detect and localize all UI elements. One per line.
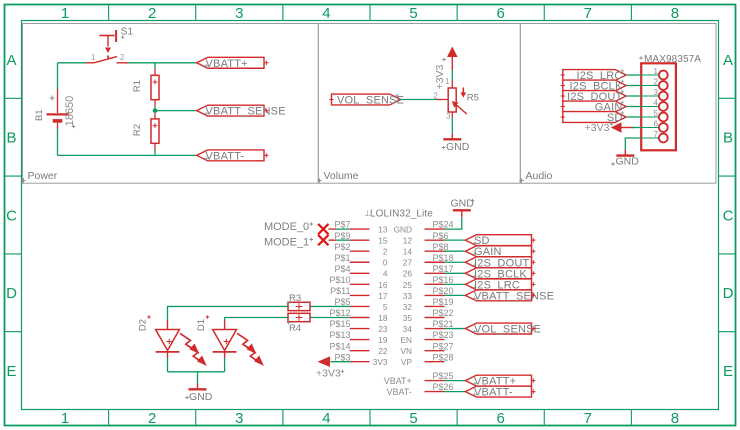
connector U2 pad circle pin 1 [659, 71, 668, 80]
module U1 right pin P$8 [425, 250, 445, 252]
section box Audio [520, 24, 716, 184]
svg-text:E: E [723, 363, 733, 380]
module U1 right pin P$17 [425, 272, 445, 274]
svg-text:D: D [723, 285, 734, 302]
wire GAIN to U2 pin 4 [626, 106, 641, 108]
svg-text:R1: R1 [132, 80, 143, 92]
svg-text:4: 4 [322, 410, 330, 427]
global label I2S_DOUT [563, 91, 626, 102]
global label I2S_BCLK [563, 80, 626, 91]
module U1 right pin P$21 [425, 328, 445, 330]
svg-text:1: 1 [61, 5, 69, 22]
section title Power [21, 178, 25, 182]
svg-text:B: B [6, 130, 16, 147]
svg-text:GND: GND [446, 141, 470, 153]
svg-text:17: 17 [378, 291, 388, 301]
module U1 left pin P$9 [350, 239, 370, 241]
ground GND module [453, 210, 471, 217]
wire U1 P$24 to GND [445, 217, 462, 229]
module U1 right pin P$27 [425, 350, 445, 352]
switch S1 [86, 30, 129, 63]
module U1 left pin P$14 [350, 350, 370, 352]
module U1 right pin P$20 [425, 294, 445, 296]
svg-text:34: 34 [403, 324, 413, 334]
wire U1 P$26 to VBATT- [445, 391, 466, 393]
module U1 right pin P$16 [425, 283, 445, 285]
svg-text:GND: GND [616, 156, 640, 168]
wire SD to U2 pin 5 [626, 116, 641, 118]
frame row ticks [5, 98, 736, 331]
module U1 left pin P$15 [350, 328, 370, 330]
module U1 left pin P$11 [350, 294, 370, 296]
module U1 left pin P$5 [350, 305, 370, 307]
global label I2S_LRC [563, 70, 626, 81]
connector U2 pin line 4 [641, 106, 659, 108]
svg-text:6: 6 [497, 5, 505, 22]
wire R5 pin3 to GND [451, 118, 453, 135]
svg-text:MODE_1: MODE_1 [264, 236, 309, 248]
svg-text:D: D [6, 285, 17, 302]
ground GND audio [616, 150, 634, 156]
wire U1 P$3 to +3V3 [331, 361, 350, 363]
svg-text:GND: GND [189, 391, 213, 403]
svg-text:VN: VN [400, 346, 412, 356]
connector U2 pad circle pin 2 [659, 81, 668, 90]
svg-text:P$12: P$12 [329, 308, 350, 318]
svg-text:GND: GND [394, 225, 412, 235]
svg-text:33: 33 [403, 291, 413, 301]
module U1 right pin P$28 [425, 361, 445, 363]
module U1 right pin P$18 [425, 261, 445, 263]
svg-text:R5: R5 [467, 92, 479, 103]
global label GAIN [465, 246, 531, 257]
svg-text:P$17: P$17 [433, 264, 454, 274]
wire U2 pin7 to GND audio [625, 138, 641, 150]
module U1 left pin P$10 [350, 283, 370, 285]
ground GND leds text [185, 396, 189, 400]
svg-text:P$1: P$1 [334, 253, 350, 263]
svg-text:1: 1 [445, 77, 450, 86]
svg-text:2: 2 [383, 247, 388, 257]
resistor R1 [151, 69, 159, 106]
global label VBATT- [197, 150, 264, 161]
ground GND audio text [611, 162, 615, 166]
svg-text:D1: D1 [196, 319, 207, 331]
module U1 right pin P$22 [425, 317, 445, 319]
svg-text:3: 3 [235, 5, 243, 22]
svg-text:2: 2 [148, 5, 156, 22]
svg-text:P$9: P$9 [334, 231, 350, 241]
svg-text:P$8: P$8 [433, 242, 449, 252]
wire battery left vertical top [57, 63, 59, 89]
svg-text:32: 32 [403, 302, 413, 312]
svg-text:P$16: P$16 [433, 275, 454, 285]
svg-text:P$24: P$24 [433, 220, 454, 230]
potentiometer R5 [437, 81, 467, 118]
svg-text:8: 8 [671, 410, 679, 427]
wire U1 P$21 to VOL_SENSE [445, 328, 466, 330]
wire I2S_LRC to U2 pin 1 [626, 74, 641, 76]
connector U2 pin line 6 [641, 127, 659, 129]
svg-text:Volume: Volume [324, 170, 359, 182]
svg-text:GND: GND [451, 197, 475, 209]
no-connect X MODE_1 [318, 235, 328, 245]
svg-text:4: 4 [322, 5, 330, 22]
resistor R2 [151, 113, 159, 150]
resistor R3 [288, 302, 310, 310]
global label I2S_DOUT [465, 257, 531, 268]
section title Volume [317, 178, 321, 182]
svg-text:3: 3 [235, 410, 243, 427]
wire U1 P$6 to SD [445, 239, 466, 241]
LED D2 [156, 321, 180, 358]
svg-text:26: 26 [403, 269, 413, 279]
wire battery top to switch pin1 [58, 62, 87, 64]
wire U1 P$25 to VBATT+ [445, 380, 466, 382]
svg-text:P$18: P$18 [433, 253, 454, 263]
svg-text:VBATT_SENSE: VBATT_SENSE [474, 290, 554, 302]
svg-text:R3: R3 [289, 293, 301, 304]
wire junction to VBATT_SENSE label [155, 110, 197, 112]
svg-text:7: 7 [584, 410, 592, 427]
global label SD [563, 112, 626, 123]
LED D1 light arrows [237, 333, 262, 364]
wire bottom rail to VBATT- label [58, 154, 197, 156]
svg-text:35: 35 [403, 313, 413, 323]
svg-text:A: A [723, 52, 733, 69]
svg-text:P$22: P$22 [433, 308, 454, 318]
svg-text:P$27: P$27 [433, 341, 454, 351]
svg-text:P$19: P$19 [433, 297, 454, 307]
svg-text:+3V3: +3V3 [585, 122, 610, 134]
svg-text:P$6: P$6 [433, 231, 449, 241]
wire VOL_SENSE to R5 wiper [401, 99, 437, 101]
svg-text:P$11: P$11 [330, 286, 350, 296]
svg-text:15: 15 [378, 236, 388, 246]
global label VBATT_SENSE [465, 290, 531, 301]
module U1 left pin P$13 [350, 339, 370, 341]
svg-text:VP: VP [401, 357, 413, 367]
svg-text:R2: R2 [132, 124, 143, 136]
wire R1 top stub [154, 63, 156, 69]
wire U1 P$7 stub [336, 228, 350, 230]
svg-text:5: 5 [409, 5, 417, 22]
global label SD [465, 235, 531, 246]
wire U1 P$16 to I2S_LRC [445, 283, 466, 285]
svg-text:P$15: P$15 [329, 319, 350, 329]
svg-text:R4: R4 [289, 323, 301, 334]
svg-text:+3V3: +3V3 [316, 368, 341, 380]
svg-text:P$14: P$14 [329, 341, 350, 351]
global label VBATT- bottom [465, 386, 531, 397]
resistor R4 [288, 313, 310, 321]
wire R4 to LED D1 top [225, 318, 288, 321]
svg-text:P$3: P$3 [334, 352, 350, 362]
power symbol +3V3 audio [611, 122, 634, 133]
junction node VBATT_SENSE [153, 108, 158, 113]
svg-text:22: 22 [378, 346, 388, 356]
global label VOL_SENSE [465, 323, 531, 334]
module U1 bottom pin P$25 [425, 380, 445, 382]
module U1 left pin P$12 [350, 317, 370, 319]
wire LED D1 cathode down [224, 358, 226, 372]
svg-text:12: 12 [403, 236, 413, 246]
module U1 left pin P$7 [350, 228, 370, 230]
LED D2 light arrows [180, 333, 205, 364]
wire junction to R2 [154, 111, 156, 113]
svg-text:18: 18 [378, 313, 388, 323]
svg-text:VOL_SENSE: VOL_SENSE [474, 324, 541, 336]
frame column ticks [109, 5, 632, 426]
svg-text:3V3: 3V3 [373, 357, 388, 367]
global label GAIN [563, 101, 626, 112]
ground GND leds [189, 384, 207, 390]
wire U1 P$8 to GAIN [445, 250, 466, 252]
wire U1 P$18 to I2S_DOUT [445, 261, 466, 263]
power symbol +3V3 volume [447, 47, 458, 71]
svg-text:MODE_0: MODE_0 [264, 221, 309, 233]
svg-text:2: 2 [148, 410, 156, 427]
wire I2S_BCLK to U2 pin 2 [626, 85, 641, 87]
svg-text:23: 23 [378, 324, 388, 334]
global label VBATT_SENSE [197, 105, 264, 116]
wire battery bottom vertical [57, 129, 59, 156]
svg-text:C: C [723, 207, 734, 224]
svg-text:VBAT+: VBAT+ [384, 376, 412, 386]
wire U1 P$17 to I2S_BCLK [445, 272, 466, 274]
svg-text:VBATT-: VBATT- [206, 150, 245, 162]
svg-text:D2: D2 [138, 319, 149, 331]
svg-text:VBATT+: VBATT+ [206, 58, 248, 70]
ground GND volume text [442, 146, 446, 150]
global label I2S_BCLK [465, 268, 531, 279]
wire LED bottom rail [168, 371, 225, 373]
svg-text:VBATT_SENSE: VBATT_SENSE [206, 106, 286, 118]
svg-text:27: 27 [403, 258, 413, 268]
svg-text:P$7: P$7 [334, 220, 350, 230]
wire I2S_DOUT to U2 pin 3 [626, 95, 641, 97]
svg-text:E: E [6, 363, 16, 380]
svg-text:P$21: P$21 [433, 319, 454, 329]
connector U2 pad circle pin 4 [659, 102, 668, 111]
wire U1 P$20 to VBATT_SENSE [445, 294, 466, 296]
svg-text:P$2: P$2 [334, 242, 350, 252]
svg-text:P$23: P$23 [433, 330, 454, 340]
section title Audio [519, 178, 523, 182]
wire +3V3 to R5 pin1 [451, 70, 453, 81]
module U1 left pin P$1 [350, 261, 370, 263]
global label VBATT+ [197, 57, 264, 68]
svg-text:Audio: Audio [526, 170, 553, 182]
wire +3V3 to U2 pin 6 [632, 127, 641, 129]
wire R4 to U1 P$12 [310, 317, 350, 319]
wire LED D2 cathode down [167, 358, 169, 372]
svg-text:0: 0 [383, 258, 388, 268]
svg-text:16: 16 [378, 280, 388, 290]
connector U2 pin line 1 [641, 74, 659, 76]
connector U2 title MAX98357A [639, 56, 643, 60]
svg-text:6: 6 [497, 410, 505, 427]
svg-text:1: 1 [61, 410, 69, 427]
wire R1 bottom to junction [154, 106, 156, 111]
wire R2 bottom to bottom rail [154, 150, 156, 156]
svg-text:2: 2 [120, 53, 125, 62]
svg-text:P$26: P$26 [433, 382, 454, 392]
battery B1 [47, 89, 69, 129]
svg-text:19: 19 [378, 335, 388, 345]
no-connect X MODE_0 [318, 224, 328, 234]
svg-text:5: 5 [383, 302, 388, 312]
svg-text:5: 5 [409, 410, 417, 427]
svg-text:1: 1 [91, 53, 96, 62]
svg-text:C: C [6, 207, 17, 224]
connector U2 pad circle pin 6 [659, 123, 668, 132]
module U1 right pin P$6 [425, 239, 445, 241]
wire bottom rail to GND leds [197, 372, 199, 384]
module U1 right pin P$23 [425, 339, 445, 341]
connector U2 pin line 5 [641, 116, 659, 118]
svg-text:A: A [6, 52, 16, 69]
LED D1 [213, 321, 237, 358]
svg-text:B: B [723, 130, 733, 147]
global label VOL_SENSE [332, 94, 401, 105]
svg-text:VBATT-: VBATT- [474, 387, 513, 399]
module U1 right pin P$19 [425, 305, 445, 307]
connector U2 pad circle pin 5 [659, 113, 668, 122]
svg-text:3: 3 [446, 112, 451, 121]
global label I2S_LRC [465, 279, 531, 290]
svg-text:B1: B1 [34, 109, 45, 121]
svg-text:LOLIN32_Lite: LOLIN32_Lite [370, 209, 433, 220]
connector U2 pad circle pin 3 [659, 92, 668, 101]
svg-text:7: 7 [584, 5, 592, 22]
svg-text:VOL_SENSE: VOL_SENSE [337, 95, 404, 107]
connector U2 MAX98357A body [641, 63, 676, 150]
battery plus mark [50, 96, 55, 101]
connector U2 pin line 3 [641, 95, 659, 97]
svg-text:P$4: P$4 [334, 264, 350, 274]
module U1 left pin P$4 [350, 272, 370, 274]
wire U1 P$9 stub [336, 239, 350, 241]
svg-text:VBAT-: VBAT- [386, 387, 411, 397]
module U1 bottom pin P$26 [425, 391, 445, 393]
module U1 right pin P$24 [425, 228, 445, 230]
svg-text:MAX98357A: MAX98357A [644, 54, 701, 65]
wire R3 to LED D2 top [168, 306, 289, 320]
section box Power [23, 24, 319, 184]
svg-text:EN: EN [400, 335, 412, 345]
svg-text:Power: Power [28, 170, 58, 182]
wire switch pin2 to VBATT+ label [129, 62, 197, 64]
svg-text:P$25: P$25 [433, 371, 454, 381]
section box Volume [318, 24, 520, 184]
module U1 left pin P$3 [350, 361, 370, 363]
connector U2 pad circle pin 7 [659, 134, 668, 143]
svg-text:P$13: P$13 [329, 330, 350, 340]
svg-text:4: 4 [383, 269, 388, 279]
connector U2 pin line 7 [641, 137, 659, 139]
svg-text:13: 13 [378, 225, 388, 235]
svg-text:P$20: P$20 [433, 286, 454, 296]
svg-text:25: 25 [403, 280, 413, 290]
svg-text:P$10: P$10 [329, 275, 350, 285]
svg-text:18650: 18650 [64, 96, 76, 127]
wire R3 to U1 P$5 [310, 305, 350, 307]
connector U2 pin line 2 [641, 85, 659, 87]
svg-text:14: 14 [403, 247, 413, 257]
global label VBATT+ bottom [465, 375, 531, 386]
power symbol +3V3 module [318, 356, 331, 367]
svg-text:8: 8 [671, 5, 679, 22]
svg-text:P$28: P$28 [433, 352, 454, 362]
module U1 left pin P$2 [350, 250, 370, 252]
ground GND volume [443, 134, 461, 139]
svg-text:P$5: P$5 [334, 297, 350, 307]
